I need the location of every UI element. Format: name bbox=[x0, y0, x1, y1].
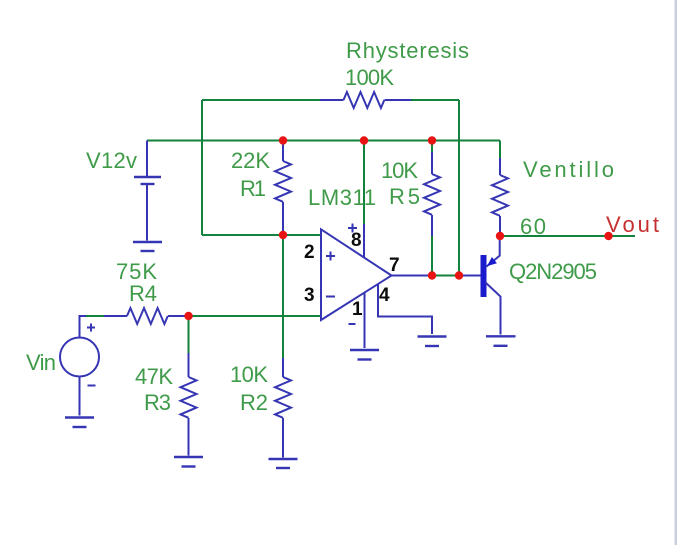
junction (node 60) bbox=[496, 232, 504, 240]
junction (rail / pin8) bbox=[360, 136, 368, 144]
svg-text:Ventillo: Ventillo bbox=[523, 157, 614, 182]
wire pin8 supply bbox=[363, 141, 365, 225]
svg-text:Vin: Vin bbox=[26, 350, 56, 375]
wire pin2 node horizontal bbox=[202, 234, 321, 236]
svg-text:1: 1 bbox=[352, 299, 363, 320]
svg-text:47K: 47K bbox=[135, 364, 173, 389]
ground (Vin) bbox=[65, 418, 94, 428]
ground (R3) bbox=[174, 457, 203, 467]
junction (R4 / R3 node) bbox=[184, 312, 192, 320]
junction (rail / R1) bbox=[279, 136, 287, 144]
svg-text:10K: 10K bbox=[381, 158, 418, 183]
svg-text:60: 60 bbox=[520, 214, 546, 239]
wire node 60 to Vout bbox=[500, 235, 635, 237]
wire R5 bottom to output node bbox=[431, 236, 433, 276]
svg-text:R2: R2 bbox=[240, 390, 268, 415]
svg-text:R1: R1 bbox=[240, 176, 266, 201]
ground (pin 1) bbox=[350, 350, 379, 360]
wire pin1 to ground bbox=[364, 293, 366, 348]
svg-text:3: 3 bbox=[304, 285, 315, 306]
resistor R3 47K bbox=[135, 353, 197, 456]
wire hysteresis loop right vertical bbox=[458, 100, 460, 276]
svg-text:7: 7 bbox=[389, 255, 400, 276]
svg-text:V12v: V12v bbox=[86, 148, 137, 173]
wire hysteresis loop top-left bbox=[202, 99, 320, 101]
svg-text:R3: R3 bbox=[144, 390, 171, 415]
resistor R4 75K bbox=[104, 259, 185, 324]
wire hysteresis loop left vertical bbox=[201, 100, 203, 235]
wire V12 power rail bbox=[147, 140, 500, 142]
wire Vin to R4 bbox=[80, 316, 88, 338]
transistor Q1 Q2N2905 bbox=[481, 236, 598, 335]
wire Ventillo top corner bbox=[499, 141, 501, 159]
svg-text:8: 8 bbox=[351, 230, 362, 251]
wire op-amp output to base bbox=[392, 275, 433, 277]
svg-text:22K: 22K bbox=[231, 148, 270, 173]
resistor R1 22K bbox=[231, 141, 291, 236]
svg-text:R4: R4 bbox=[129, 281, 157, 306]
svg-text:Q2N2905: Q2N2905 bbox=[509, 259, 597, 284]
wire R3 branch vertical bbox=[188, 316, 190, 353]
resistor Rhysteresis 100K bbox=[320, 38, 469, 108]
resistor R2 10K bbox=[230, 358, 291, 458]
ground (R2) bbox=[269, 459, 298, 468]
svg-text:Vout: Vout bbox=[606, 212, 659, 237]
junction (Vout) bbox=[604, 232, 612, 240]
wire hysteresis loop top-right bbox=[411, 99, 459, 101]
op-amp U1 LM311 bbox=[308, 185, 392, 324]
svg-text:4: 4 bbox=[379, 285, 390, 306]
source Vin bbox=[26, 324, 99, 416]
resistor Ventillo bbox=[492, 157, 614, 236]
svg-text:10K: 10K bbox=[230, 362, 268, 387]
junction (output / R5) bbox=[428, 271, 436, 279]
wire pin3 node horizontal bbox=[185, 315, 321, 317]
battery V12v bbox=[86, 141, 161, 241]
svg-text:Rhysteresis: Rhysteresis bbox=[346, 38, 469, 63]
wire pin4 to ground bbox=[378, 284, 432, 334]
window border right edge bbox=[675, 0, 678, 545]
svg-text:LM311: LM311 bbox=[308, 185, 376, 210]
junction (rail / R5) bbox=[428, 136, 436, 144]
wire R2 branch vertical bbox=[282, 235, 284, 358]
ground (Q1 collector) bbox=[486, 336, 516, 346]
junction (pin2 node) bbox=[279, 231, 287, 239]
ground (pin 4) bbox=[418, 337, 447, 347]
wire R5 top stub bbox=[431, 141, 433, 153]
junction (output / feedback) bbox=[455, 271, 463, 279]
ground (battery) bbox=[133, 242, 162, 251]
resistor R5 10K bbox=[381, 152, 440, 236]
svg-text:2: 2 bbox=[304, 242, 315, 263]
svg-text:100K: 100K bbox=[345, 65, 394, 90]
svg-text:R5: R5 bbox=[389, 184, 420, 209]
